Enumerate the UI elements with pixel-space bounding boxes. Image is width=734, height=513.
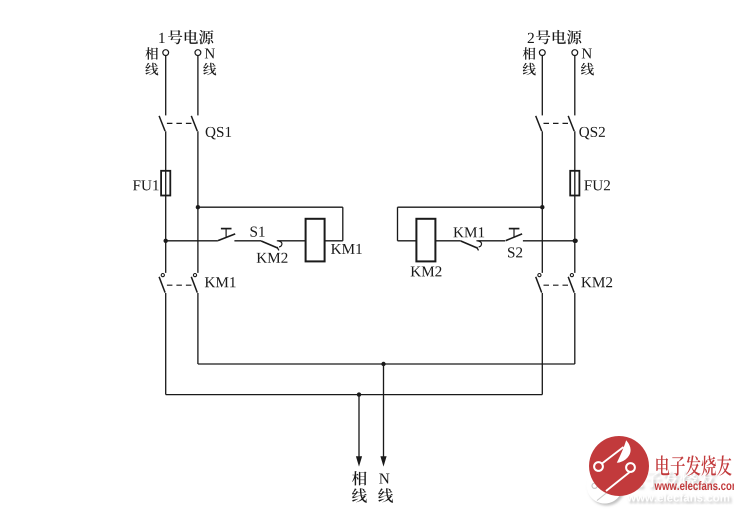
output N label: [379, 474, 389, 484]
terminal N label (source2): [582, 48, 592, 58]
wire coil KM2 left feed: [397, 207, 399, 241]
node: 2号电源 title: [536, 30, 550, 44]
watermark emboss cjk text: [627, 471, 716, 488]
label FU1: [133, 180, 140, 190]
contactor KM2 main pole N: [570, 274, 573, 277]
terminal 相线 label (source2): [523, 47, 536, 60]
label QS1: [206, 127, 216, 140]
watermark red logo: [589, 436, 649, 496]
wire N source2 upper: [574, 56, 576, 116]
coil KM2: [416, 219, 435, 262]
switch QS1 pole phase: [159, 116, 165, 131]
push button S1: [218, 234, 235, 241]
wire control row segment A: [166, 240, 218, 242]
wire N branch horizontal: [198, 206, 343, 208]
junction dot phase source2: [540, 205, 544, 209]
terminal circle phase source1: [163, 50, 169, 56]
terminal N 线 label (source1): [203, 63, 216, 76]
switch QS2 linkage dash: [544, 122, 569, 124]
label KM2 main: [581, 277, 591, 287]
switch QS2 pole N: [568, 116, 574, 131]
wire coil KM1 right feed: [342, 207, 344, 241]
wire control row segment E: [478, 240, 506, 242]
switch QS1 pole N: [191, 116, 197, 131]
output arrow phase: [358, 395, 360, 459]
switch QS1 linkage dash: [167, 122, 192, 124]
wire N source1 mid: [197, 131, 199, 273]
wire control row segment B: [234, 240, 261, 242]
junction dot control row right: [573, 239, 577, 243]
contact KM2 NC: [261, 241, 278, 248]
watermark red cjk text: [656, 455, 669, 475]
output arrow N: [383, 364, 385, 459]
wire phase source2 upper: [541, 56, 543, 116]
label QS2: [579, 127, 589, 140]
wire phase2 branch horizontal: [398, 206, 543, 208]
terminal circle phase source2: [539, 50, 545, 56]
terminal 相线 label (source1): [145, 47, 158, 60]
contactor KM2 linkage dash: [544, 284, 569, 286]
label KM2 coil: [411, 266, 421, 276]
wire N source1 lower: [197, 293, 199, 364]
label KM1 main: [205, 277, 215, 287]
wire control row segment D: [435, 240, 460, 242]
contactor KM2 main pole phase: [538, 274, 541, 277]
wire phase source2 mid: [541, 131, 543, 273]
push button S2: [506, 234, 522, 241]
switch QS2 pole phase: [536, 116, 542, 131]
wire N source1 upper: [197, 56, 199, 116]
junction dot phase source1: [164, 239, 168, 243]
watermark emboss logo: [587, 460, 623, 504]
terminal circle N source2: [572, 50, 578, 56]
watermark red url text: [654, 483, 662, 490]
wire phase source2 lower: [541, 293, 543, 395]
wire N bus: [198, 363, 575, 365]
output 相线 label: [352, 471, 367, 485]
contactor KM1 linkage dash: [167, 284, 192, 286]
terminal circle N source1: [195, 50, 201, 56]
wire phase source1 upper: [165, 56, 167, 116]
label KM1 coil: [331, 244, 341, 254]
label FU2: [584, 180, 591, 190]
contactor KM1 main pole phase: [161, 274, 164, 277]
coil KM1: [306, 219, 325, 262]
label S1: [251, 227, 257, 237]
wire N source2 mid: [574, 131, 576, 273]
terminal N label (source1): [205, 48, 215, 58]
node: 1号电源 title: [168, 30, 182, 44]
label KM1 aux: [453, 227, 463, 237]
node label 2 (source2): [528, 33, 534, 43]
wire N source2 lower: [574, 293, 576, 364]
node label 1 (source1): [159, 33, 164, 43]
junction dot N source1: [196, 205, 200, 209]
watermark emboss url text: [627, 493, 729, 501]
fuse FU2: [570, 171, 579, 196]
wire phase source1 mid: [165, 131, 167, 273]
junction dot N bus: [381, 362, 385, 366]
contact KM1 NC: [461, 241, 478, 248]
fuse FU1: [161, 171, 170, 196]
wire control row segment C: [278, 240, 306, 242]
junction dot phase bus: [357, 392, 361, 396]
watermark emboss traces: [597, 474, 610, 484]
label S2: [508, 247, 514, 257]
junction dot N source2: [573, 239, 577, 243]
label KM2 aux: [257, 253, 267, 263]
wire phase source1 lower: [165, 293, 167, 395]
contactor KM1 main pole N: [193, 274, 196, 277]
terminal N 线 label (source2): [581, 63, 594, 76]
wire control row segment F: [523, 240, 576, 242]
wire phase bus: [166, 394, 543, 396]
output N 线 label: [378, 488, 393, 502]
